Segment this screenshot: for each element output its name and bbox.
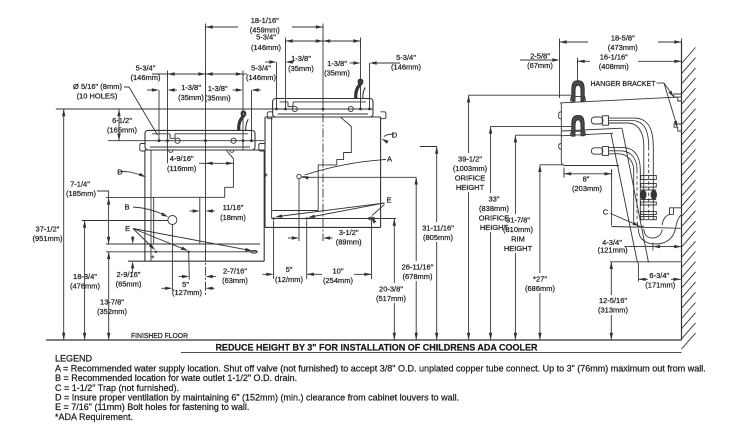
trap inlet step line to wall <box>612 227 681 229</box>
reference stub line for 31-11/16 <box>420 146 437 148</box>
svg-text:(35mm): (35mm) <box>205 93 231 102</box>
right unit left ear tab <box>267 112 272 119</box>
right unit centerline dash-dot <box>322 99 324 242</box>
footer separator line <box>181 351 682 353</box>
dimension 12-5/16 (313mm) <box>610 262 612 295</box>
left unit bubbler front view <box>238 112 245 131</box>
dimension 26-11/16 (678mm) <box>415 177 417 261</box>
reference line 33 orifice level <box>491 125 573 127</box>
svg-text:26-11/16": 26-11/16" <box>402 262 434 271</box>
svg-text:(805mm): (805mm) <box>423 233 454 242</box>
right unit hole extension lines above rail <box>285 41 287 108</box>
svg-text:10": 10" <box>332 266 343 275</box>
svg-text:REDUCE HEIGHT BY 3" FOR INSTAL: REDUCE HEIGHT BY 3" FOR INSTALLATION OF … <box>215 343 538 353</box>
pipe coupling rings <box>641 176 657 180</box>
hanger bracket at wall upper <box>674 94 682 101</box>
svg-text:37-1/2": 37-1/2" <box>36 224 60 233</box>
svg-text:(810mm): (810mm) <box>503 225 534 234</box>
svg-text:18-5/8": 18-5/8" <box>611 34 635 43</box>
svg-text:HEIGHT: HEIGHT <box>504 244 533 253</box>
svg-text:C: C <box>603 208 609 217</box>
svg-text:C = 1-1/2" Trap (not furnished: C = 1-1/2" Trap (not furnished). <box>55 383 179 393</box>
side view lower unit top edge <box>561 133 613 136</box>
left unit right ear tab <box>259 144 265 152</box>
svg-text:1-3/8": 1-3/8" <box>181 83 201 92</box>
small cross mark <box>151 256 154 258</box>
svg-text:(185mm): (185mm) <box>66 189 97 198</box>
upper drain pipe inner wall <box>609 123 644 146</box>
reference line 27 knee level <box>540 164 564 166</box>
svg-text:5-3/4": 5-3/4" <box>396 53 416 62</box>
svg-text:4-9/16": 4-9/16" <box>170 154 194 163</box>
dimension 39-1/2 (1003mm) orifice height <box>468 95 470 153</box>
trap outlet elbow inner <box>662 215 669 226</box>
svg-text:33": 33" <box>488 194 499 203</box>
right unit bubbler front view <box>355 80 362 99</box>
svg-text:(65mm): (65mm) <box>116 279 142 288</box>
dimension 31-7/8 (810mm) rim height <box>514 135 516 214</box>
left unit inner left edge line <box>150 150 152 261</box>
svg-text:39-1/2": 39-1/2" <box>458 154 482 163</box>
svg-text:(408mm): (408mm) <box>599 62 630 71</box>
svg-text:(838mm): (838mm) <box>479 204 510 213</box>
reference line lower rail hole centerline <box>108 140 264 142</box>
lower drain stub coupling <box>602 147 608 156</box>
svg-text:2-9/16": 2-9/16" <box>117 270 141 279</box>
svg-text:1-3/8": 1-3/8" <box>208 84 228 93</box>
svg-text:1-3/8": 1-3/8" <box>291 54 311 63</box>
side view upper basin bottom edge <box>561 128 622 131</box>
right unit rail inner bottom line <box>278 113 368 115</box>
svg-text:12-5/16": 12-5/16" <box>599 296 627 305</box>
svg-text:(473mm): (473mm) <box>608 43 639 52</box>
trap inlet step bracket <box>637 222 644 226</box>
hanger bracket at wall lower <box>674 124 682 131</box>
svg-text:(203mm): (203mm) <box>572 184 603 193</box>
svg-text:D: D <box>392 131 398 140</box>
left unit rail slot notch <box>170 134 175 139</box>
upper drain pipe outer wall <box>609 118 654 146</box>
svg-text:HANGER BRACKET: HANGER BRACKET <box>591 79 656 88</box>
svg-text:(146mm): (146mm) <box>391 63 422 72</box>
right unit rail mounting holes <box>275 108 278 111</box>
svg-text:(476mm): (476mm) <box>70 281 101 290</box>
svg-text:18-1/16": 18-1/16" <box>251 16 279 25</box>
side view upper bubbler collar <box>570 97 585 102</box>
left unit rail bottom notches <box>169 150 174 152</box>
svg-text:(313mm): (313mm) <box>598 306 629 315</box>
svg-text:5": 5" <box>286 265 293 274</box>
svg-text:A = Recommended water supply l: A = Recommended water supply location. S… <box>55 363 706 373</box>
svg-text:(121mm): (121mm) <box>598 246 629 255</box>
right unit top rail <box>273 99 373 118</box>
svg-text:(35mm): (35mm) <box>288 64 314 73</box>
right unit bolt holes <box>272 217 274 219</box>
upper drain hidden tube dashed <box>609 121 649 148</box>
svg-text:(171mm): (171mm) <box>645 280 676 289</box>
right unit inner left edge line <box>271 117 273 219</box>
right unit cabinet body <box>264 117 266 227</box>
wall line <box>681 42 683 340</box>
svg-text:E: E <box>125 224 130 233</box>
left unit rail inner fold line <box>152 133 170 135</box>
right unit row-A dimension line <box>286 40 324 42</box>
svg-text:B = Recommended location for w: B = Recommended location for wate outlet… <box>55 373 297 383</box>
extension lines right unit bolts down <box>273 221 275 280</box>
reference line upper rail hole centerline <box>56 108 373 110</box>
svg-text:(35mm): (35mm) <box>324 69 350 78</box>
dimension 27 (686mm) ADA knee clearance <box>539 165 541 273</box>
svg-text:*27": *27" <box>533 274 547 283</box>
lower drain hidden tube dashed <box>609 151 638 170</box>
extension line mid bolt down <box>188 252 191 280</box>
trap tailpiece pipe <box>643 146 645 220</box>
side view bottom rear edge <box>610 261 681 263</box>
svg-text:B: B <box>124 202 129 211</box>
side view lower bubbler collar <box>570 131 585 136</box>
lower drain stub <box>591 148 603 154</box>
svg-text:ORIFICE: ORIFICE <box>455 174 485 183</box>
left unit cabinet body <box>144 150 146 261</box>
svg-text:(1003mm): (1003mm) <box>453 164 488 173</box>
svg-text:FINISHED FLOOR: FINISHED FLOOR <box>131 331 188 340</box>
svg-text:(165mm): (165mm) <box>107 126 138 135</box>
reference line A height <box>301 176 416 178</box>
svg-text:(678mm): (678mm) <box>402 272 433 281</box>
svg-text:5-3/4": 5-3/4" <box>256 33 276 42</box>
side view upper bubbler <box>572 81 584 102</box>
svg-text:11/16": 11/16" <box>223 203 244 212</box>
trap J-bend outer <box>638 229 675 245</box>
svg-text:(67mm): (67mm) <box>527 61 553 70</box>
svg-text:(146mm): (146mm) <box>251 43 282 52</box>
left unit top rail <box>145 130 255 150</box>
side view front hanger tab lower <box>559 144 562 150</box>
dimension 20-3/8 (517mm) <box>393 219 395 284</box>
left unit hole extension lines above rail <box>167 74 169 163</box>
svg-text:1-3/8": 1-3/8" <box>327 59 347 68</box>
left unit rail inner bottom line <box>150 146 250 148</box>
svg-text:(12/mm): (12/mm) <box>275 275 303 284</box>
svg-text:(18mm): (18mm) <box>220 213 246 222</box>
floor line <box>46 339 682 341</box>
right unit right ear tab <box>381 112 386 119</box>
hanger bracket leaders <box>657 82 665 84</box>
svg-text:18-3/4": 18-3/4" <box>73 272 97 281</box>
left unit left ear tab <box>140 144 145 152</box>
dimension 31-11/16 (805mm) <box>436 147 438 223</box>
svg-text:(63mm): (63mm) <box>222 276 248 285</box>
left unit bolt holes <box>155 251 157 253</box>
svg-text:ORIFICE: ORIFICE <box>479 214 509 223</box>
side view rear slant line inner <box>622 128 649 262</box>
svg-text:(127mm): (127mm) <box>172 288 203 297</box>
svg-text:31-11/16": 31-11/16" <box>422 223 454 232</box>
left unit bolt row line <box>106 251 258 253</box>
svg-text:2-7/16": 2-7/16" <box>223 266 247 275</box>
node A water supply circle <box>297 174 301 178</box>
svg-text:5-3/4": 5-3/4" <box>251 63 271 72</box>
lower drain pipe inner wall <box>609 154 634 222</box>
lower drain pipe outer wall <box>609 147 641 221</box>
small cross mark right unit <box>265 174 268 176</box>
side view upper basin top edge <box>560 97 682 103</box>
svg-text:(352mm): (352mm) <box>97 307 128 316</box>
svg-text:A: A <box>387 155 392 164</box>
pipe lower rings <box>641 202 657 205</box>
svg-text:3-1/2": 3-1/2" <box>339 228 359 237</box>
right unit rail slot notch <box>288 102 293 107</box>
svg-text:(35mm): (35mm) <box>178 93 204 102</box>
wall hatching <box>682 48 696 64</box>
svg-text:(951mm): (951mm) <box>32 234 63 243</box>
reference line 31-7/8 rim level <box>515 134 561 136</box>
svg-text:31-7/8": 31-7/8" <box>506 215 530 224</box>
side view front hanger tab upper <box>559 112 562 119</box>
upper drain stub coupling <box>602 116 608 125</box>
extension line from A down <box>298 179 300 241</box>
svg-text:E: E <box>386 195 391 204</box>
side view rear slant line outer <box>611 134 638 264</box>
svg-text:5-3/4": 5-3/4" <box>136 63 156 72</box>
svg-text:(146mm): (146mm) <box>246 73 277 82</box>
svg-text:8": 8" <box>583 174 590 183</box>
svg-text:(254mm): (254mm) <box>323 276 354 285</box>
reference line B height <box>82 220 168 222</box>
node B waste outlet circle <box>168 216 177 225</box>
svg-text:20-3/8": 20-3/8" <box>379 284 403 293</box>
dimension 33 (838mm) orifice height <box>490 126 492 193</box>
svg-text:2-5/8": 2-5/8" <box>530 52 550 61</box>
right unit louver stepped line <box>272 117 352 210</box>
svg-text:6-1/2": 6-1/2" <box>112 116 132 125</box>
left unit centerline <box>205 141 207 252</box>
reference line 39-1/2 orifice level <box>469 94 573 96</box>
trap outlet escutcheon at wall <box>670 208 682 215</box>
extension line from B circle down <box>171 225 173 291</box>
svg-text:(517mm): (517mm) <box>376 294 407 303</box>
dimension 2-9/16 (65mm) stub arrows <box>132 236 134 241</box>
right unit rail inner fold line <box>280 101 288 103</box>
svg-text:LEGEND: LEGEND <box>55 354 93 364</box>
side view lower bubbler <box>572 116 584 137</box>
right unit bolt row line <box>272 218 396 220</box>
left unit row-A dimension line <box>152 73 206 75</box>
svg-text:E = 7/16" (11mm) Bolt holes fo: E = 7/16" (11mm) Bolt holes for fastenin… <box>55 402 249 412</box>
trap outlet elbow outer <box>676 215 682 229</box>
svg-text:Ø 5/16" (8mm): Ø 5/16" (8mm) <box>73 82 122 91</box>
svg-text:(686mm): (686mm) <box>525 284 556 293</box>
svg-text:HEIGHT: HEIGHT <box>456 183 485 192</box>
svg-text:(89mm): (89mm) <box>336 237 362 246</box>
svg-text:D = Insure proper ventilation: D = Insure proper ventilation by maintai… <box>55 393 459 403</box>
pipe union nut with side lugs <box>640 190 646 200</box>
trap J-bend inner <box>644 229 662 238</box>
svg-text:(10 HOLES): (10 HOLES) <box>77 92 118 101</box>
left unit rail mounting holes <box>158 139 161 142</box>
side view front edge <box>561 103 619 166</box>
svg-text:(116mm): (116mm) <box>167 164 197 173</box>
svg-text:RIM: RIM <box>511 235 525 244</box>
leader from hole label to rail hole <box>124 87 158 135</box>
left unit louver stepped line <box>154 150 234 244</box>
upper drain stub <box>591 117 603 124</box>
svg-text:6-3/4": 6-3/4" <box>649 271 669 280</box>
svg-text:*ADA Requirement.: *ADA Requirement. <box>55 412 133 422</box>
svg-text:16-1/16": 16-1/16" <box>600 53 628 62</box>
svg-text:13-7/8": 13-7/8" <box>100 297 124 306</box>
svg-text:7-1/4": 7-1/4" <box>70 179 90 188</box>
